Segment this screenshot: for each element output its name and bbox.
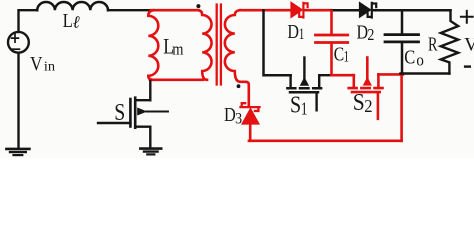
body arrow <box>137 108 147 116</box>
output - <box>465 65 470 67</box>
left riser <box>352 75 355 87</box>
diode D1 <box>291 2 308 17</box>
body arrow <box>363 77 372 86</box>
red top wire secondary to D1 <box>240 9 291 12</box>
black bottom output rail <box>401 72 450 75</box>
svg-text:D: D <box>357 22 369 44</box>
right riser <box>318 75 320 87</box>
transformer secondary winding <box>225 10 249 106</box>
svg-text:S: S <box>290 93 301 119</box>
wire source top to rail <box>19 10 38 32</box>
ground (under S) <box>140 149 161 155</box>
inductor Lm (magnetizing) <box>148 10 158 80</box>
polarity dot primary <box>196 4 200 8</box>
black rail D2 to R corner <box>373 9 451 12</box>
svg-text:L: L <box>63 11 73 32</box>
svg-text:in: in <box>44 60 55 75</box>
switch S1 (MOSFET) <box>287 58 331 111</box>
capacitor Co <box>385 11 419 74</box>
red wire node to S2 <box>332 74 354 77</box>
resistor R <box>441 10 458 73</box>
wire D3 anode down <box>249 124 252 141</box>
transformer core <box>217 5 221 85</box>
diode D3 <box>241 103 260 124</box>
svg-text:o: o <box>416 51 424 70</box>
body line <box>147 110 168 112</box>
svg-text:1: 1 <box>301 98 308 118</box>
svg-text:V: V <box>464 35 474 56</box>
svg-text:3: 3 <box>235 111 242 128</box>
svg-text:S: S <box>114 100 125 126</box>
switch S2 (MOSFET, red) <box>349 58 403 119</box>
svg-text:1: 1 <box>299 26 305 43</box>
right wire to node <box>319 74 331 76</box>
body line <box>366 58 369 79</box>
red wire primary bottom <box>150 79 203 82</box>
gate bar <box>290 91 318 94</box>
svg-text:R: R <box>428 34 438 56</box>
output + <box>461 11 473 23</box>
red riser output node to bottom rail <box>400 75 403 141</box>
wire rail Ll to transformer (black part) <box>108 9 151 11</box>
capacitor C1 <box>316 11 348 75</box>
svg-text:C: C <box>404 47 415 69</box>
left riser <box>289 75 291 87</box>
svg-text:ℓ: ℓ <box>73 13 80 32</box>
svg-text:S: S <box>353 90 365 116</box>
ground (left, under Vin) <box>6 149 29 155</box>
polarity dot secondary <box>237 84 241 88</box>
wire source bottom to ground <box>17 53 19 149</box>
right wire to output node <box>378 73 403 76</box>
MOSFET S drain riser <box>149 81 151 100</box>
channel bar <box>134 98 137 128</box>
gate bar <box>129 99 132 127</box>
gate lead <box>98 122 130 124</box>
diode D2 <box>360 3 377 18</box>
right riser <box>377 74 380 87</box>
gate stub <box>315 93 317 110</box>
transformer primary winding <box>198 10 212 80</box>
source stub <box>135 127 150 148</box>
svg-text:2: 2 <box>367 25 374 44</box>
bottom red rail <box>249 139 402 142</box>
svg-text:D: D <box>224 105 236 126</box>
svg-text:D: D <box>287 21 299 43</box>
voltage source Vin <box>8 32 55 75</box>
channel dashes <box>287 87 321 90</box>
drain stub <box>135 99 150 101</box>
svg-text:2: 2 <box>364 96 372 116</box>
gate stub <box>377 93 380 119</box>
body arrow <box>300 77 309 86</box>
wire red top rail Lm to primary <box>151 9 199 12</box>
gate bar <box>352 91 380 94</box>
body line <box>303 58 305 79</box>
red wire D1 to C1 node <box>304 9 331 12</box>
svg-text:m: m <box>172 40 183 59</box>
channel dashes <box>349 87 383 90</box>
black rail C1 node to D2 <box>332 9 360 12</box>
svg-text:V: V <box>30 53 43 75</box>
svg-text:1: 1 <box>344 48 350 65</box>
black elbow top rail to S1 drain <box>264 10 291 75</box>
MOSFET S <box>98 98 168 148</box>
inductor L_l (leakage) <box>37 2 108 10</box>
